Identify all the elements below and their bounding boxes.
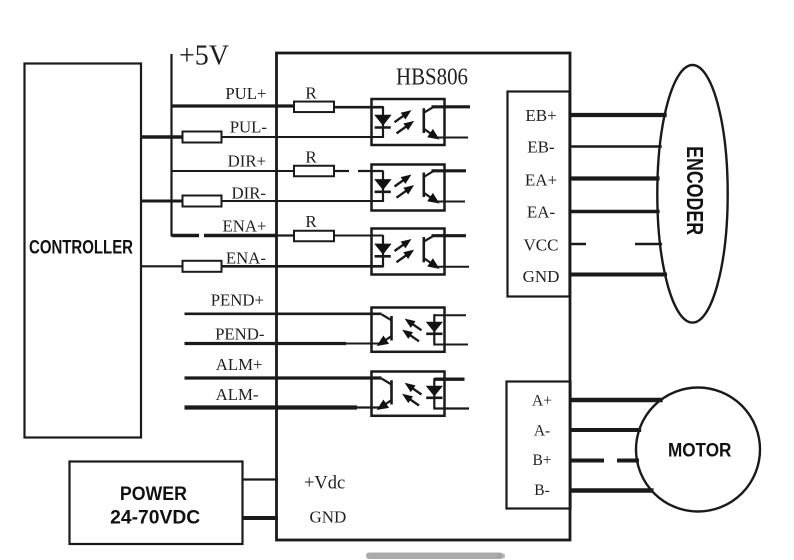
svg-text:PUL+: PUL+ xyxy=(225,84,266,103)
svg-text:EB+: EB+ xyxy=(525,106,556,125)
svg-text:DIR-: DIR- xyxy=(232,183,267,202)
svg-text:POWER: POWER xyxy=(120,483,187,505)
svg-text:A-: A- xyxy=(534,423,550,440)
svg-text:ENCODER: ENCODER xyxy=(682,146,708,235)
svg-text:MOTOR: MOTOR xyxy=(668,441,732,462)
svg-text:HBS806: HBS806 xyxy=(396,64,468,91)
svg-text:EB-: EB- xyxy=(527,138,555,157)
svg-text:EA-: EA- xyxy=(527,203,556,222)
svg-text:R: R xyxy=(305,148,317,167)
svg-text:ENA+: ENA+ xyxy=(223,216,267,235)
svg-text:EA+: EA+ xyxy=(525,171,557,190)
svg-text:R: R xyxy=(305,212,317,231)
svg-text:ALM-: ALM- xyxy=(216,385,259,404)
svg-text:+5V: +5V xyxy=(179,41,229,72)
svg-text:A+: A+ xyxy=(532,393,552,410)
svg-text:CONTROLLER: CONTROLLER xyxy=(29,237,133,259)
svg-text:+Vdc: +Vdc xyxy=(304,474,345,494)
svg-text:ENA-: ENA- xyxy=(226,248,266,267)
svg-text:PUL-: PUL- xyxy=(230,118,267,137)
svg-text:24-70VDC: 24-70VDC xyxy=(110,508,200,529)
svg-text:DIR+: DIR+ xyxy=(228,151,266,170)
svg-text:PEND+: PEND+ xyxy=(211,290,264,309)
svg-text:B-: B- xyxy=(534,482,550,499)
svg-text:B+: B+ xyxy=(532,452,551,469)
svg-text:GND: GND xyxy=(310,508,347,527)
svg-text:PEND-: PEND- xyxy=(215,325,264,344)
svg-text:GND: GND xyxy=(523,267,560,286)
svg-text:VCC: VCC xyxy=(524,236,559,255)
svg-text:ALM+: ALM+ xyxy=(216,355,263,374)
svg-text:R: R xyxy=(305,84,317,103)
